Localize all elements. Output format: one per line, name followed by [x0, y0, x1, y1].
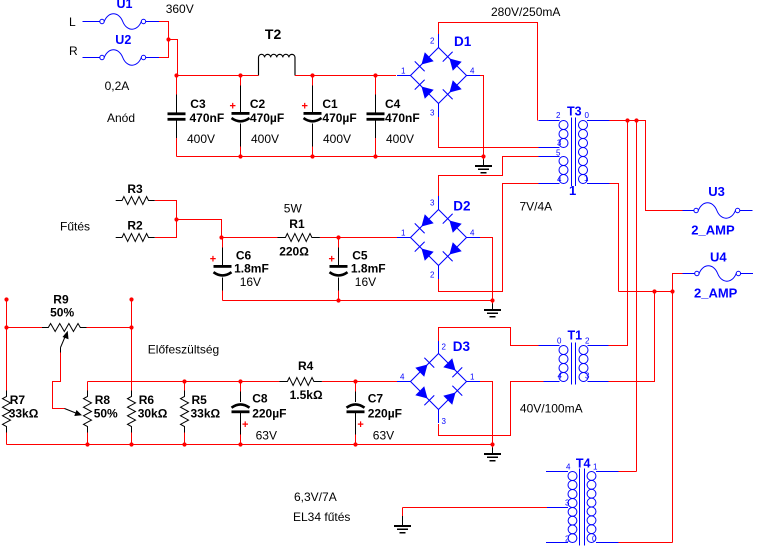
svg-text:16V: 16V [355, 275, 376, 289]
svg-text:L: L [69, 15, 76, 29]
svg-text:1.8mF: 1.8mF [351, 262, 386, 276]
svg-text:Előfeszültség: Előfeszültség [148, 343, 219, 357]
svg-text:D3: D3 [453, 339, 471, 354]
svg-text:40V/100mA: 40V/100mA [520, 402, 583, 416]
svg-text:470nF: 470nF [190, 111, 225, 125]
svg-text:1: 1 [470, 373, 475, 382]
svg-text:C1: C1 [322, 97, 338, 111]
svg-text:6,3V/7A: 6,3V/7A [294, 490, 337, 504]
svg-text:2_AMP: 2_AMP [691, 223, 735, 238]
svg-text:3: 3 [442, 417, 447, 426]
svg-text:1.5kΩ: 1.5kΩ [290, 388, 323, 402]
svg-text:R: R [69, 44, 78, 58]
svg-text:3: 3 [565, 499, 570, 508]
svg-text:4: 4 [566, 463, 571, 472]
svg-text:3: 3 [557, 139, 562, 148]
svg-text:2: 2 [556, 111, 561, 120]
svg-text:R2: R2 [127, 219, 143, 233]
svg-text:3: 3 [430, 109, 435, 118]
svg-text:C2: C2 [250, 97, 266, 111]
svg-text:0,2A: 0,2A [105, 79, 130, 93]
svg-text:U4: U4 [710, 250, 727, 265]
svg-text:1: 1 [569, 183, 576, 198]
svg-text:4: 4 [557, 175, 562, 184]
svg-text:R7: R7 [10, 393, 26, 407]
svg-text:400V: 400V [187, 132, 215, 146]
svg-text:1: 1 [593, 463, 598, 472]
svg-text:360V: 360V [166, 2, 194, 16]
svg-text:50%: 50% [94, 407, 118, 421]
svg-text:1: 1 [401, 229, 406, 238]
svg-text:3: 3 [430, 199, 435, 208]
svg-text:R4: R4 [298, 359, 314, 373]
svg-text:400V: 400V [323, 132, 351, 146]
svg-text:+: + [230, 100, 236, 112]
svg-text:33kΩ: 33kΩ [9, 407, 39, 421]
svg-text:R8: R8 [95, 393, 111, 407]
svg-text:280V/250mA: 280V/250mA [491, 5, 560, 19]
svg-text:T3: T3 [567, 105, 582, 119]
svg-text:U1: U1 [117, 0, 133, 11]
svg-text:D1: D1 [454, 34, 472, 49]
svg-text:+: + [357, 419, 363, 431]
svg-text:50%: 50% [50, 306, 74, 320]
svg-text:R9: R9 [53, 293, 69, 307]
svg-text:4: 4 [470, 67, 475, 76]
svg-text:0: 0 [557, 337, 562, 346]
svg-text:3: 3 [585, 372, 590, 381]
svg-text:R3: R3 [127, 182, 143, 196]
svg-text:2: 2 [585, 337, 590, 346]
svg-text:400V: 400V [251, 132, 279, 146]
svg-text:C4: C4 [385, 97, 401, 111]
svg-text:220µF: 220µF [368, 407, 402, 421]
svg-text:4: 4 [558, 372, 563, 381]
svg-text:D2: D2 [453, 199, 470, 214]
svg-text:220Ω: 220Ω [279, 245, 309, 259]
svg-text:C3: C3 [190, 97, 206, 111]
svg-text:2: 2 [442, 343, 447, 352]
svg-text:2: 2 [430, 37, 435, 46]
svg-text:+: + [302, 100, 308, 112]
svg-text:U2: U2 [115, 33, 131, 47]
svg-text:5: 5 [556, 149, 561, 158]
svg-text:0: 0 [592, 535, 597, 544]
svg-text:C5: C5 [352, 249, 368, 263]
svg-text:T2: T2 [265, 26, 282, 42]
svg-text:0: 0 [585, 111, 590, 120]
svg-text:63V: 63V [256, 429, 277, 443]
svg-text:470µF: 470µF [250, 111, 284, 125]
svg-text:400V: 400V [386, 132, 414, 146]
svg-text:EL34 fűtés: EL34 fűtés [293, 510, 350, 524]
svg-text:U3: U3 [708, 184, 725, 199]
svg-text:R5: R5 [192, 393, 208, 407]
svg-text:470µF: 470µF [322, 111, 356, 125]
svg-text:30kΩ: 30kΩ [138, 407, 168, 421]
svg-text:7V/4A: 7V/4A [520, 200, 553, 214]
svg-text:+: + [210, 254, 216, 266]
svg-text:2_AMP: 2_AMP [694, 286, 738, 301]
svg-text:R1: R1 [289, 217, 305, 231]
svg-text:1: 1 [584, 174, 589, 183]
svg-text:33kΩ: 33kΩ [191, 407, 221, 421]
svg-text:2: 2 [430, 271, 435, 280]
svg-text:R6: R6 [139, 393, 155, 407]
svg-text:1.8mF: 1.8mF [234, 262, 269, 276]
svg-text:16V: 16V [240, 275, 261, 289]
svg-text:C7: C7 [368, 392, 384, 406]
svg-text:Fűtés: Fűtés [60, 220, 90, 234]
svg-text:C8: C8 [252, 392, 268, 406]
svg-text:Anód: Anód [107, 111, 135, 125]
svg-text:220µF: 220µF [252, 407, 286, 421]
svg-text:4: 4 [470, 229, 475, 238]
svg-text:1: 1 [401, 67, 406, 76]
svg-text:4: 4 [400, 373, 405, 382]
svg-text:T4: T4 [576, 457, 591, 471]
svg-text:63V: 63V [373, 429, 394, 443]
svg-text:+: + [242, 419, 248, 431]
svg-text:T1: T1 [568, 329, 583, 343]
svg-text:C6: C6 [236, 249, 252, 263]
svg-text:+: + [329, 254, 335, 266]
svg-text:5W: 5W [284, 202, 303, 216]
svg-text:470nF: 470nF [385, 111, 420, 125]
svg-text:2: 2 [565, 535, 570, 544]
